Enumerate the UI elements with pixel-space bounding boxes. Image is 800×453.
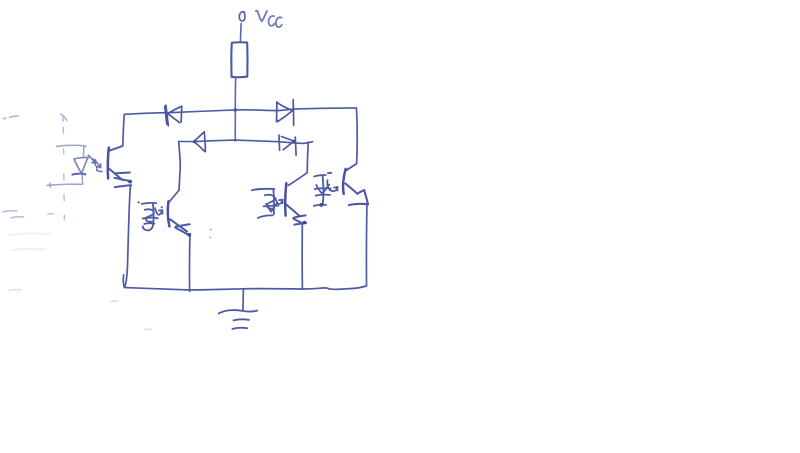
wire Q2 emitter down to bottom bus	[188, 237, 190, 292]
label Vcc	[256, 11, 282, 27]
wire row2 bus horizontal	[179, 140, 313, 143]
transistor Q1 collector lead	[109, 146, 123, 151]
diode D1	[165, 105, 182, 126]
wire row1 node down to row2 bus	[234, 110, 236, 140]
node Vcc terminal circle	[239, 12, 245, 21]
diode D2	[277, 100, 294, 126]
wire row2 left corner down to Q2	[179, 142, 181, 191]
node junction row2	[234, 139, 237, 142]
transistor Q1 emitter with arrow	[109, 169, 132, 188]
optocoupler LED anode lead (faint)	[56, 145, 86, 157]
base symbol at Q2	[138, 202, 162, 230]
diode D4	[279, 135, 296, 155]
faint pencil dash marks top left	[3, 114, 67, 120]
transistor Q4 base bar	[343, 169, 346, 194]
ground bar 1	[219, 310, 258, 313]
transistor Q2 base bar	[168, 201, 170, 226]
transistor Q3 base bar	[285, 183, 286, 215]
wire bottom bus	[125, 286, 367, 290]
wire left drop from row1 bus to Q1	[109, 114, 124, 150]
wire Vcc terminal to resistor	[240, 24, 243, 42]
base symbol at Q3	[252, 189, 283, 218]
transistor Q3 emitter with arrow	[287, 205, 307, 225]
optocoupler LED cathode bar	[72, 173, 85, 176]
optocoupler LED cathode lead (faint)	[47, 175, 83, 187]
base symbol at Q4	[314, 173, 338, 207]
optocoupler dashed package outline (faint)	[63, 116, 65, 220]
wire row2 right drop to Q3	[288, 142, 308, 185]
faint dash marks left middle	[3, 211, 54, 218]
transistor Q2 emitter with arrow	[170, 219, 191, 236]
wire Q3 emitter down to bottom bus	[301, 225, 303, 290]
ground bar 3	[232, 328, 247, 329]
wire row1 bus horizontal	[124, 108, 356, 115]
ground stem	[242, 289, 244, 310]
wire Q1 emitter down to bottom bus	[123, 186, 130, 287]
transistor Q4 collector lead	[347, 164, 357, 171]
wire resistor to row1 node	[234, 78, 236, 110]
transistor Q2 collector lead	[169, 190, 179, 201]
faint smudges lower left	[9, 233, 50, 250]
wire row1 right drop to Q4	[347, 108, 357, 170]
node junction row1	[234, 108, 237, 111]
wire Q4 emitter down to bottom bus	[365, 205, 367, 286]
optocoupler LED triangle	[74, 157, 88, 172]
optocoupler light arrows	[88, 155, 102, 171]
faint ink dots near Q2	[210, 229, 212, 238]
resistor R1	[231, 42, 247, 77]
diode D3	[193, 132, 206, 152]
transistor Q4 emitter with arrow	[346, 184, 369, 206]
ground bar 2	[234, 319, 249, 320]
transistor Q1 base bar	[107, 148, 110, 179]
